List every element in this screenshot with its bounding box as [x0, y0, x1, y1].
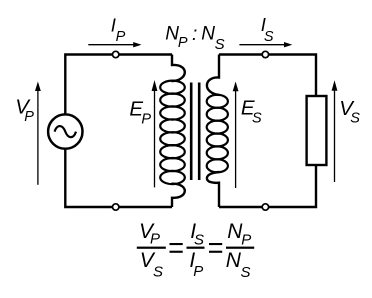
secondary winding loops: [207, 95, 228, 173]
formula I_S/I_P: [187, 220, 205, 280]
node top-left: [113, 51, 119, 57]
formula N_P/N_S: [226, 220, 255, 281]
core line 1: [190, 83, 193, 181]
svg-text:S: S: [241, 264, 251, 281]
core line 2: [198, 83, 201, 181]
primary winding exit hook: [172, 184, 185, 207]
svg-text:P: P: [141, 111, 151, 127]
arrow V_P: [35, 82, 41, 185]
svg-text:P: P: [116, 29, 126, 45]
AC source V1: [48, 114, 82, 148]
svg-text::: :: [192, 24, 197, 45]
svg-text:N: N: [201, 24, 215, 45]
primary winding loops: [160, 81, 185, 184]
arrow I_S: [239, 42, 292, 47]
arrow I_P: [88, 42, 141, 47]
svg-text:N: N: [226, 249, 242, 272]
label E_P: [129, 97, 151, 127]
svg-text:S: S: [264, 29, 274, 45]
arrow E_P: [152, 80, 158, 187]
resistor load R: [307, 96, 327, 165]
svg-text:S: S: [194, 231, 204, 248]
wire right vertical lower + bottom-right: [219, 165, 316, 208]
arrow V_S: [332, 80, 338, 182]
wire top-right + right vertical: [219, 55, 316, 97]
node bottom-right: [262, 204, 268, 210]
node top-right: [262, 51, 268, 57]
svg-text:P: P: [241, 231, 251, 248]
svg-text:P: P: [150, 231, 160, 248]
svg-text:P: P: [193, 263, 203, 280]
label V_P: [15, 96, 34, 126]
label I_P: [111, 14, 126, 45]
formula V_P/V_S: [137, 220, 166, 281]
svg-text:S: S: [215, 36, 225, 53]
svg-text:P: P: [24, 109, 34, 125]
equals 1: [170, 243, 183, 253]
secondary winding exit hook: [207, 172, 220, 207]
secondary winding entry hook: [207, 55, 220, 95]
arrow E_S: [233, 82, 239, 189]
svg-text:S: S: [153, 264, 163, 281]
label N_P : N_S: [165, 24, 224, 53]
label I_S: [261, 14, 274, 45]
label V_S: [339, 97, 360, 126]
wire left vertical lower + bottom-left: [65, 150, 172, 207]
sine wave: [55, 126, 76, 137]
svg-text:S: S: [252, 111, 262, 127]
wire top-left + left vertical: [65, 55, 172, 114]
node bottom-left: [113, 204, 119, 210]
svg-text:P: P: [178, 35, 188, 51]
primary winding entry hook: [172, 55, 185, 82]
equals 2: [209, 243, 222, 253]
svg-text:S: S: [350, 110, 360, 126]
label E_S: [241, 97, 262, 127]
